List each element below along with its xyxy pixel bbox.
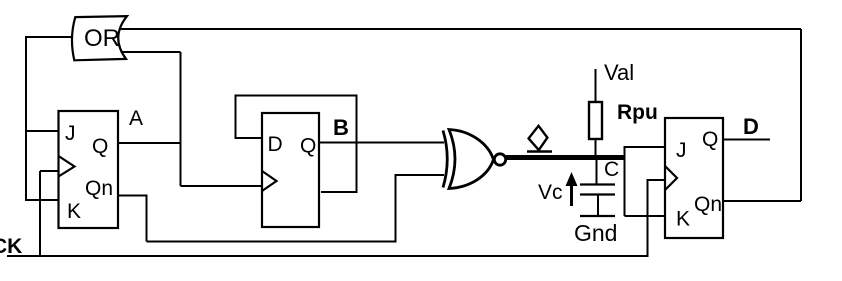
svg-text:K: K xyxy=(676,208,690,231)
svg-text:D: D xyxy=(268,133,283,156)
flip-flop U1 left JK xyxy=(59,111,119,228)
svg-text:Q: Q xyxy=(702,128,718,151)
wire K input xyxy=(25,199,59,201)
wire D-FF clock input xyxy=(181,185,263,187)
wire Q output right FF xyxy=(723,139,770,141)
svg-text:CK: CK xyxy=(0,235,22,258)
flip-flop U2 D type xyxy=(262,113,319,227)
wire CK rail xyxy=(7,180,665,256)
svg-text:Qn: Qn xyxy=(85,177,113,200)
svg-text:OR: OR xyxy=(84,25,120,52)
wire Qn output right FF to feedback xyxy=(723,200,801,202)
svg-text:Val: Val xyxy=(604,60,634,85)
arrow Vc xyxy=(570,185,573,206)
svg-text:Q: Q xyxy=(300,135,316,158)
wire J/K tie vertical xyxy=(624,146,626,216)
ground bar xyxy=(580,215,615,217)
svg-text:J: J xyxy=(65,122,76,145)
diamond marker xyxy=(527,126,552,152)
resistor Rpu xyxy=(595,69,597,102)
svg-text:Qn: Qn xyxy=(694,193,722,216)
svg-text:D: D xyxy=(743,114,759,139)
wire Q output node B to XNOR top input xyxy=(319,142,444,144)
node C thick wire xyxy=(506,155,626,160)
svg-text:A: A xyxy=(129,107,143,130)
svg-text:J: J xyxy=(676,139,687,162)
wire Q output node A xyxy=(118,142,181,144)
wire vertical node A feedback xyxy=(180,52,182,186)
wire Qn rail to XNOR xyxy=(147,175,445,242)
wire J input xyxy=(25,130,59,132)
capacitor C1 xyxy=(596,160,598,184)
xnor gate U3 xyxy=(443,130,506,189)
wire OR output to left xyxy=(26,36,72,38)
svg-text:C: C xyxy=(604,158,619,181)
svg-text:Rpu: Rpu xyxy=(617,101,658,124)
svg-text:K: K xyxy=(67,200,81,223)
wire left Qn output xyxy=(118,196,147,242)
or-gate OR xyxy=(72,16,127,60)
wire left vertical to J and K xyxy=(25,36,27,200)
svg-text:Vc: Vc xyxy=(538,181,563,204)
svg-text:Q: Q xyxy=(92,135,108,158)
svg-text:Gnd: Gnd xyxy=(574,220,617,246)
wire OR bottom input xyxy=(121,51,181,53)
wire J input right FF xyxy=(625,146,666,148)
wire clock input left FF xyxy=(40,170,59,172)
flip-flop U4 right JK xyxy=(665,118,723,238)
svg-text:B: B xyxy=(333,115,349,140)
wire top feedback from OR input to right side xyxy=(121,28,801,30)
wire K input right FF xyxy=(625,215,666,217)
wire right vertical feedback xyxy=(800,29,802,201)
wire D input feedback loop xyxy=(236,96,357,193)
